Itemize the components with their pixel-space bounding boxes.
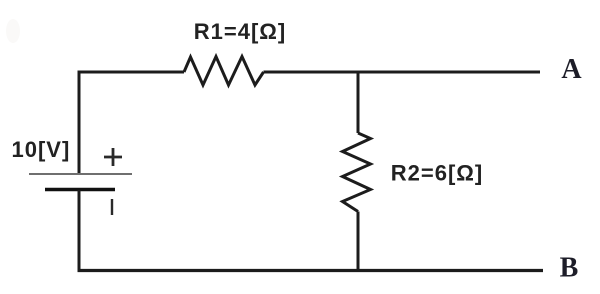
- battery V1 plate + (long thin): [29, 173, 132, 175]
- wire R2 bottom to B rail: [357, 212, 360, 271]
- resistor R2: [343, 133, 371, 212]
- wire top-left segment (battery top to R1): [79, 72, 184, 173]
- battery V1 plate - (short thick): [45, 188, 115, 192]
- battery minus mark: [111, 199, 113, 215]
- node junction top (R2 tap): [357, 72, 360, 133]
- wire bottom (B rail): [78, 269, 544, 272]
- resistor R1: [184, 57, 264, 86]
- wire top-right segment (R1 to terminal A): [264, 71, 541, 74]
- wire battery bottom to bottom-left corner: [78, 190, 81, 271]
- battery plus sign: [104, 148, 122, 166]
- svg-text:A: A: [561, 54, 582, 85]
- faint smudge top-left: [6, 19, 20, 43]
- svg-text:R2=6[Ω]: R2=6[Ω]: [391, 161, 484, 186]
- svg-text:B: B: [560, 253, 579, 284]
- svg-text:10[V]: 10[V]: [12, 137, 71, 162]
- svg-text:R1=4[Ω]: R1=4[Ω]: [194, 19, 287, 44]
